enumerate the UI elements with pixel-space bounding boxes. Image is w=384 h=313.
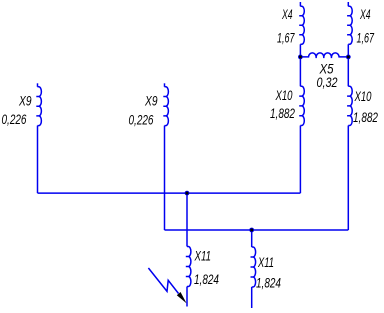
- svg-text:1,882: 1,882: [353, 109, 378, 125]
- svg-text:0,32: 0,32: [317, 74, 338, 90]
- reactor X4 left coil: [299, 6, 304, 44]
- reactor X11 left coil: [186, 247, 191, 287]
- fault lightning bolt: [148, 268, 178, 294]
- wire X4 right to node B: [347, 44, 349, 57]
- svg-text:1,824: 1,824: [256, 275, 281, 291]
- svg-text:0,226: 0,226: [2, 111, 27, 127]
- svg-text:X9: X9: [18, 93, 31, 109]
- reactor X10 right coil: [347, 86, 352, 125]
- svg-text:0,226: 0,226: [129, 112, 154, 128]
- reactor X4 right coil: [347, 6, 352, 44]
- wire top stub of right generator branch: [347, 2, 349, 6]
- svg-text:X11: X11: [257, 254, 274, 270]
- reactor X10 left coil: [299, 86, 304, 125]
- wire X9 left down to bus 1: [37, 126, 39, 194]
- wire X10 right down to bus 2: [347, 126, 349, 231]
- wire X9 right down to bus 2: [164, 126, 166, 230]
- svg-text:X4: X4: [281, 6, 292, 22]
- node A junction dot: [298, 55, 303, 60]
- wire bus 1 tap down to X11 left: [186, 193, 188, 246]
- wire bus 2: [165, 229, 349, 231]
- reactor X9 left coil: [36, 87, 41, 126]
- node B junction dot: [346, 55, 351, 60]
- svg-text:1,824: 1,824: [194, 271, 219, 287]
- wire top stub of X9 right branch: [164, 83, 166, 87]
- svg-text:X9: X9: [144, 93, 157, 109]
- reactor X5 tie coil with leads: [300, 53, 348, 58]
- svg-text:X10: X10: [275, 87, 293, 103]
- svg-text:X4: X4: [359, 6, 370, 22]
- wire bus 1: [38, 192, 301, 194]
- fault arrowhead: [177, 292, 187, 303]
- wire X4 left to node A: [299, 44, 301, 57]
- node D junction dot on bus 2: [249, 228, 254, 233]
- svg-text:X11: X11: [194, 248, 211, 264]
- wire X11 left to fault point: [186, 287, 188, 307]
- svg-text:1,67: 1,67: [357, 30, 375, 46]
- reactor X11 right coil: [251, 247, 256, 287]
- wire top stub of X9 left branch: [37, 83, 39, 87]
- wire top stub of left generator branch: [299, 2, 301, 6]
- svg-text:1,882: 1,882: [270, 105, 295, 121]
- wire node A to X10 left: [299, 57, 301, 86]
- wire bus 2 tap down to X11 right: [251, 230, 253, 247]
- wire node B to X10 right: [347, 57, 349, 86]
- reactor X9 right coil: [163, 87, 168, 126]
- node C junction dot on bus 1: [185, 191, 190, 196]
- wire X11 right bottom lead: [251, 287, 253, 308]
- svg-text:1,67: 1,67: [277, 30, 295, 46]
- wire X10 left down to bus 1: [299, 126, 301, 194]
- svg-text:X10: X10: [354, 88, 372, 104]
